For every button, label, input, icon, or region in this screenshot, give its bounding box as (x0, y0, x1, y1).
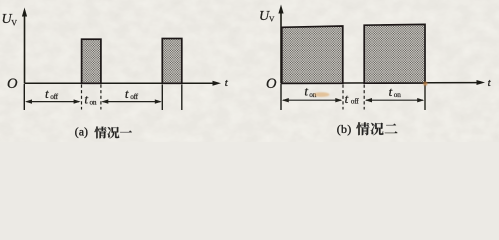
svg-text:on: on (90, 97, 97, 106)
svg-text:V: V (269, 15, 275, 24)
y-axis (b) (278, 5, 283, 84)
pulse 1 (b) (282, 26, 343, 83)
x-axis (a) (25, 81, 222, 86)
label t_on (a) (84, 92, 96, 107)
origin extension line below axis (a) (23, 84, 25, 110)
dimension t_on segment 2 (b) (365, 98, 424, 102)
dimension t_on segment 1 (b) (282, 98, 343, 102)
label t_off 1 (a) (45, 86, 59, 101)
pulse 2 (a) (162, 39, 182, 84)
paper grain (0, 0, 499, 142)
svg-text:t: t (125, 86, 129, 101)
svg-text:on: on (394, 90, 401, 99)
solid extension at pulse2 right edge (b) (424, 85, 426, 111)
svg-text:O: O (266, 76, 277, 92)
svg-text:t: t (84, 92, 88, 107)
svg-text:(b): (b) (337, 122, 352, 136)
label t_off between dashed lines (b) (345, 91, 360, 106)
svg-text:V: V (11, 18, 17, 27)
svg-text:t: t (345, 91, 349, 106)
pulse 2 (b) (364, 24, 425, 83)
dashed extension at pulse1 right edge (b) (342, 85, 344, 110)
svg-text:t: t (304, 84, 308, 99)
svg-text:O: O (7, 76, 18, 92)
pulse 1 (a) (82, 39, 101, 83)
dimension t_off segment 2 (a) (101, 99, 162, 103)
svg-text:(a): (a) (75, 126, 88, 138)
dimension t_off segment 1 (a) (25, 99, 81, 103)
origin extension line below axis (b) (280, 84, 282, 110)
label t_off 2 (a) (125, 86, 139, 101)
caption (a) hanzi 情况一 (94, 127, 132, 139)
paper background (0, 0, 499, 142)
dashed extension at pulse2 left edge (b) (363, 85, 365, 110)
label t_on 2 (b) (389, 84, 402, 99)
solid extension at pulse2 left edge (a) (161, 85, 163, 111)
svg-text:t: t (389, 84, 393, 99)
y-axis label U_V (a) (2, 12, 18, 27)
orange speck on axis at pulse2 right edge (b) (423, 82, 427, 86)
svg-text:off: off (50, 92, 58, 101)
x-axis (b) (281, 80, 485, 85)
svg-text:t: t (45, 86, 49, 101)
label t_on 1 (b) (304, 84, 316, 99)
solid extension at pulse2 right edge (a) (181, 85, 183, 111)
y-axis label U_V (b) (259, 9, 275, 24)
dashed extension at pulse1 right edge (a) (100, 85, 102, 110)
svg-text:off: off (351, 97, 359, 106)
svg-text:off: off (130, 92, 138, 101)
y-axis (a) (22, 8, 27, 84)
dashed extension at pulse1 left edge (a) (81, 85, 83, 110)
caption (b) hanzi 情况二 (356, 122, 397, 135)
orange highlighter smudge near t_on (b) (314, 92, 330, 97)
